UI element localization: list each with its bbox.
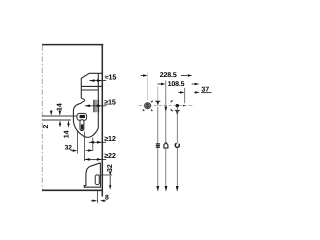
bottom latch outline [84, 163, 100, 187]
marker line A down wedge [156, 101, 159, 106]
hole 2 corner ticks [171, 100, 173, 111]
svg-text:≥22: ≥22 [104, 151, 116, 160]
dimension ~15 [89, 79, 106, 82]
extension line from tail left [76, 132, 78, 154]
striker bar (hatched) [94, 100, 99, 112]
bolt block symbol on line A [156, 143, 160, 148]
svg-text:32: 32 [107, 164, 114, 172]
marker line C bottom arrow [176, 186, 179, 192]
hole 1 corner ticks [143, 101, 153, 111]
marker line B (x 165.8, hole 2) [165, 81, 167, 186]
cylinder keyway (dark) [80, 115, 85, 118]
extension line above hole 1 [147, 73, 149, 101]
dimension >=12 [89, 141, 106, 144]
svg-text:2: 2 [43, 125, 50, 129]
cylinder housing outline [73, 103, 98, 137]
drilling axis dashed line [139, 105, 194, 107]
lock case outline [81, 73, 102, 98]
svg-text:≥15: ≥15 [104, 98, 116, 107]
latch slot [95, 175, 99, 185]
svg-text:228.5: 228.5 [160, 72, 177, 79]
svg-text:108.5: 108.5 [168, 81, 185, 88]
hole 3 bar tick [175, 109, 180, 111]
extension line from tail right [83, 132, 85, 162]
leader line B (cylinder lower) [42, 119, 71, 121]
extension line housing bottom [92, 138, 94, 152]
cabinet side centerline (dash-dot) [41, 46, 43, 190]
marker line B bottom arrow [165, 186, 168, 192]
euro cylinder plug [77, 113, 87, 120]
extension line for 37 [184, 88, 186, 104]
leader line A (cylinder top) [42, 115, 77, 117]
cabinet top panel [42, 44, 103, 46]
cabinet bottom panel [42, 189, 102, 191]
small arrow at extension bottom [183, 105, 186, 107]
marker line C (x 177.3) [176, 107, 178, 186]
lock neck ledge line [81, 89, 98, 91]
hole 3 down wedge below [176, 111, 179, 116]
cylinder tail dark tip [81, 124, 83, 129]
svg-text:8: 8 [105, 194, 109, 201]
ring symbol on line C [175, 143, 179, 147]
marker line A lower part [157, 107, 159, 186]
svg-text:≈15: ≈15 [105, 73, 117, 82]
dimension >=22 [85, 158, 107, 161]
hole 2 up wedge below axis [164, 107, 167, 112]
dimension >=15 [85, 105, 106, 108]
hole 1: hatched drill circle [145, 103, 151, 109]
marker line A bottom arrow [156, 186, 159, 192]
marker line A (x 157.8) upper faint part [157, 87, 159, 101]
marker line A top tick [155, 100, 160, 102]
keeper house symbol on line B [164, 143, 168, 148]
door front line [101, 45, 103, 197]
svg-text:14: 14 [64, 130, 71, 138]
lock spring cusp [81, 98, 85, 103]
hole 3 drill dot [176, 104, 179, 107]
cylinder tail slot [80, 120, 84, 131]
svg-text:≥12: ≥12 [104, 134, 116, 143]
lock body right edge [97, 73, 99, 128]
